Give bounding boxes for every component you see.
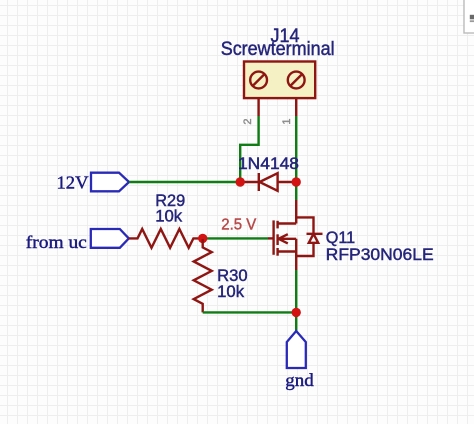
ground flag gnd bbox=[287, 331, 306, 368]
connector J14 screw terminal body bbox=[244, 62, 315, 99]
junction node C gate node bbox=[198, 234, 207, 243]
wire pin1 down to drain bbox=[295, 116, 297, 200]
ui panel fragment bbox=[464, 0, 474, 33]
resistor R30 bbox=[194, 239, 212, 312]
svg-text:1: 1 bbox=[281, 118, 293, 124]
transistor Q11 bbox=[268, 200, 296, 270]
diode D1 1N4148 bbox=[240, 173, 296, 191]
screw for pin 1 bbox=[288, 72, 305, 89]
svg-text:gnd: gnd bbox=[285, 370, 314, 390]
svg-text:1N4148: 1N4148 bbox=[238, 155, 299, 173]
svg-text:2.5 V: 2.5 V bbox=[221, 217, 256, 234]
junction node B bbox=[292, 177, 301, 186]
screw for pin 2 bbox=[250, 72, 267, 89]
svg-text:Screwterminal: Screwterminal bbox=[221, 38, 335, 60]
junction node A bbox=[236, 177, 245, 186]
svg-text:2: 2 bbox=[242, 118, 254, 124]
wire pin2 to 12V node bbox=[240, 116, 258, 182]
svg-text:10k: 10k bbox=[217, 282, 244, 301]
junction node D ground node bbox=[292, 308, 301, 317]
resistor R29 bbox=[129, 229, 203, 248]
net flag from uc bbox=[91, 229, 129, 248]
pin 1 stub bbox=[295, 98, 297, 116]
wire R30 bottom to ground node bbox=[203, 311, 297, 313]
net flag 12V bbox=[91, 173, 129, 192]
wire source to ground node bbox=[295, 270, 297, 312]
pin 2 stub bbox=[257, 98, 259, 116]
wire gate node to Q11 gate bbox=[203, 237, 268, 239]
wire 12V flag to node A bbox=[129, 181, 240, 183]
svg-text:from uc: from uc bbox=[26, 232, 87, 252]
wire ground node to gnd flag bbox=[295, 312, 297, 331]
svg-text:RFP30N06LE: RFP30N06LE bbox=[326, 245, 434, 264]
svg-text:Q11: Q11 bbox=[326, 228, 356, 247]
svg-text:10k: 10k bbox=[155, 207, 182, 226]
svg-text:12V: 12V bbox=[57, 173, 89, 193]
body diode of Q11 bbox=[296, 217, 322, 256]
